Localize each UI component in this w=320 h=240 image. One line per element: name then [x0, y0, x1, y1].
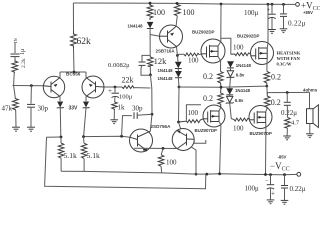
svg-text:BUZ902DP: BUZ902DP: [192, 29, 215, 34]
svg-text:2SB716A: 2SB716A: [156, 49, 176, 54]
svg-text:BUZ907DP: BUZ907DP: [250, 131, 273, 136]
svg-text:0.2: 0.2: [271, 98, 281, 107]
svg-text:6.8v: 6.8v: [236, 73, 245, 78]
svg-text:62k: 62k: [77, 37, 92, 47]
svg-text:47k: 47k: [2, 105, 13, 113]
svg-text:2SD756A: 2SD756A: [151, 124, 172, 129]
wire outer return path: [45, 137, 206, 189]
+Vcc rail: [73, 2, 295, 6]
zener 33V (Q1 collector): [57, 102, 64, 138]
output line to speaker: [267, 86, 310, 94]
ground (1k): [110, 120, 118, 124]
transistor 2SD756A driver: [130, 129, 153, 152]
svg-text:0.3C/W: 0.3C/W: [277, 62, 292, 67]
transistor driver right (mirrored): [172, 129, 194, 151]
resistor 47k: [2, 86, 19, 128]
svg-text:-85V: -85V: [278, 155, 287, 160]
svg-text:0.0082μ: 0.0082μ: [108, 62, 130, 69]
+Vcc terminal: [296, 1, 320, 15]
wire bias chain to lower driver: [177, 87, 180, 129]
input terminal IN: [13, 38, 18, 53]
svg-text:33V: 33V: [69, 106, 79, 112]
svg-text:BUZ907DP: BUZ907DP: [195, 128, 218, 133]
svg-text:+85V: +85V: [303, 10, 313, 15]
capacitor 0.22u bottom rail: [281, 175, 306, 201]
resistor 100 (2SB716A emitter): [174, 3, 194, 26]
zener 6.8v protect upper: [226, 68, 245, 87]
wire driver base L: [194, 139, 206, 143]
capacitor 0.0082u: [108, 55, 150, 75]
svg-text:0.2: 0.2: [203, 72, 213, 81]
capacitor 0.22u top rail: [280, 4, 306, 28]
svg-text:22k: 22k: [122, 76, 134, 85]
wire 2SB716A collector to gate node: [176, 47, 184, 57]
transistor 2SB716A: [156, 25, 183, 54]
svg-text:BC556: BC556: [66, 72, 81, 77]
ground (30p): [27, 127, 35, 131]
ground (0.22u top): [280, 29, 288, 33]
resistor 100 gate (lower MOSFET 4): [231, 118, 250, 132]
svg-text:100μ: 100μ: [245, 185, 260, 193]
svg-text:4ohms: 4ohms: [303, 87, 318, 92]
svg-text:0.22μ: 0.22μ: [288, 20, 306, 28]
resistor 2.2k input: [12, 58, 27, 73]
svg-text:0.2: 0.2: [271, 73, 281, 82]
capacitor 100u top rail: [244, 4, 276, 29]
svg-text:+: +: [271, 190, 275, 198]
MOSFET U1 BUZ902DP upper-left: [201, 4, 225, 71]
resistor 0.2 (U1 source): [203, 71, 223, 87]
resistor 5.1k left: [58, 137, 77, 171]
svg-text:+: +: [108, 87, 112, 95]
resistor 100 gate (upper MOSFET 2): [231, 43, 251, 55]
svg-text:1N4148: 1N4148: [128, 24, 144, 29]
svg-text:HEATSINK: HEATSINK: [277, 51, 301, 56]
resistor 0.2 (U4 source): [264, 93, 280, 109]
collector bus left (diff pair loads): [47, 135, 130, 139]
svg-text:100μ: 100μ: [244, 9, 259, 17]
svg-text:4.7: 4.7: [291, 120, 300, 127]
resistor 0.2 (U3 source): [203, 87, 223, 107]
diode 1N4148 protect lower: [226, 86, 250, 94]
transistor Q2 BC556 right (mirrored): [82, 76, 104, 101]
ground (Zobel): [283, 136, 291, 140]
output line upper: [179, 85, 268, 89]
ground (47k): [12, 127, 20, 131]
svg-text:30p: 30p: [38, 105, 49, 113]
capacitor 30p input: [27, 86, 49, 127]
diode 1N4148 (VAS base): [128, 22, 154, 56]
svg-text:100: 100: [183, 8, 195, 17]
wire 62k to emitters: [73, 48, 76, 72]
resistor 1k: [112, 102, 125, 120]
-Vcc rail: [61, 171, 297, 176]
resistor 100 (driver emitters): [158, 155, 177, 173]
svg-text:1N4148: 1N4148: [235, 88, 251, 93]
wire emitter bus lower: [134, 147, 178, 155]
speaker: [307, 92, 319, 133]
capacitor 100u feedback: [108, 87, 133, 102]
capacitor 30p comp: [122, 105, 152, 137]
MOSFET U3 BUZ907DP lower-left: [203, 105, 225, 174]
diode 1N4148 bias 2: [158, 69, 182, 89]
svg-text:100: 100: [233, 124, 244, 132]
svg-text:100: 100: [153, 8, 165, 17]
resistor 62k: [71, 31, 92, 48]
resistor 22k feedback: [122, 76, 151, 89]
svg-text:100: 100: [188, 57, 199, 65]
svg-text:1N4148: 1N4148: [158, 68, 174, 73]
svg-text:WITH FAN: WITH FAN: [277, 56, 301, 61]
svg-text:1k: 1k: [118, 104, 126, 112]
diode 1N4148 protect upper: [227, 61, 251, 68]
diode 1N4148 bias 1: [158, 56, 182, 74]
capacitor 1u input: [11, 49, 27, 60]
svg-text:100: 100: [233, 43, 244, 51]
svg-text:1N4148: 1N4148: [158, 76, 174, 81]
-Vcc terminal: [270, 155, 301, 177]
ground (100u bottom): [267, 200, 275, 204]
svg-text:1μ: 1μ: [20, 49, 26, 55]
svg-text:0.22μ: 0.22μ: [281, 109, 297, 117]
resistor 12k: [147, 56, 167, 76]
svg-text:5.1k: 5.1k: [64, 151, 77, 160]
zener 6.8v protect lower: [226, 95, 244, 119]
svg-text:6.8v: 6.8v: [235, 98, 244, 103]
wire drain branch to protection chain: [221, 38, 231, 54]
zener 33V (Q2 collector): [83, 102, 90, 137]
wire emitter junction: [60, 71, 86, 78]
svg-text:0.2: 0.2: [203, 94, 213, 103]
wire rail corner down to 62k: [72, 3, 74, 31]
svg-text:100: 100: [188, 109, 199, 117]
svg-text:IN: IN: [13, 38, 18, 43]
svg-text:100: 100: [166, 158, 177, 166]
wire input node: [13, 73, 44, 87]
svg-text:12k: 12k: [154, 56, 168, 66]
heatsink note: [277, 51, 301, 67]
svg-text:+: +: [267, 7, 271, 14]
svg-text:100μ: 100μ: [119, 94, 133, 101]
wire driver emitter to -Vcc: [191, 147, 198, 176]
svg-text:2.2k: 2.2k: [21, 58, 27, 68]
resistor 5.1k right: [81, 137, 100, 172]
MOSFET U2 BUZ902DP upper-right: [251, 4, 274, 71]
ground (100u top): [268, 30, 276, 34]
resistor 100 gate (upper MOSFET 1): [184, 53, 202, 65]
svg-text:0.22μ: 0.22μ: [290, 185, 306, 193]
svg-text:5.1k: 5.1k: [87, 151, 100, 160]
svg-text:1N4148: 1N4148: [236, 63, 252, 68]
MOSFET U4 BUZ907DP lower-right: [249, 106, 272, 175]
resistor 100 (left, top rail): [147, 3, 165, 20]
transistor Q1 BC556 left: [43, 76, 64, 101]
ground (0.22u bottom): [281, 200, 289, 204]
resistor 100 gate (lower MOSFET 3): [179, 105, 204, 123]
resistor 0.2 (U2 source): [264, 71, 281, 86]
svg-text:BUZ902DP: BUZ902DP: [237, 33, 260, 38]
ground (speaker): [306, 134, 314, 138]
Zobel resistor 4.7: [285, 117, 300, 136]
capacitor 100u bottom rail: [245, 175, 276, 200]
wire node A to 2SB716A base: [150, 35, 160, 37]
Zobel capacitor 0.22u: [281, 93, 297, 118]
svg-text:30p: 30p: [132, 105, 143, 113]
node: feedback junction at Q2 base: [104, 86, 122, 89]
wire VAS collector column: [150, 75, 153, 131]
